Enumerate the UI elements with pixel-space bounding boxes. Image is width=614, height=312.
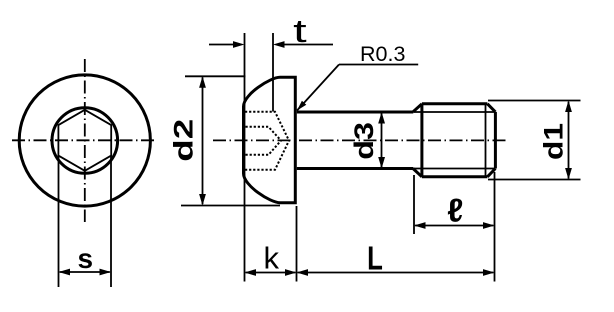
R0.3 leader arrow	[297, 65, 418, 111]
dimension d1 line with arrows	[565, 101, 572, 180]
dimension d2 line with arrows	[199, 76, 206, 205]
thread chamfer diagonal top-right	[487, 104, 495, 112]
L right extension line	[494, 172, 496, 282]
d1 extension line bottom	[488, 179, 581, 181]
d3 dimension line with arrows	[378, 112, 385, 169]
thread runout diagonal bottom-left	[413, 169, 422, 177]
thread full-dia start vertical	[420, 104, 423, 177]
dimension k line with arrows	[245, 269, 297, 276]
socket counterbore inner circle	[52, 108, 118, 174]
dimension t right arrow	[273, 41, 333, 48]
hex socket hexagon	[58, 110, 111, 171]
thread crest bottom line	[422, 175, 488, 178]
thread chamfer diagonal bottom-right	[487, 169, 495, 177]
l (ell) left extension line	[413, 175, 415, 234]
socket outer bottom hidden line	[245, 141, 289, 170]
head outer circle (d2) front view	[19, 75, 150, 206]
t extension line left (shared with k)	[244, 33, 246, 282]
vertical centerline front view	[84, 59, 86, 222]
svg-text:d3: d3	[349, 122, 379, 160]
dimension t left arrow	[209, 41, 245, 48]
d2 extension line top	[185, 75, 245, 77]
svg-text:d1: d1	[538, 123, 568, 160]
dimension L line with arrows	[297, 269, 495, 276]
thread root bottom thin line	[413, 168, 495, 170]
dimension s line with arrows	[59, 269, 112, 276]
horizontal centerline front view	[12, 139, 155, 141]
hex socket hidden lines (dotted)	[245, 112, 289, 170]
thread outline	[413, 104, 495, 177]
d1 extension line top	[488, 100, 581, 102]
thread runout diagonal top-left	[413, 104, 422, 112]
thread end face vertical	[494, 112, 497, 169]
s extension line right	[110, 156, 112, 288]
svg-text:R0.3: R0.3	[360, 42, 405, 66]
label t	[293, 13, 307, 49]
svg-text:s: s	[78, 243, 94, 274]
thread root top thin line	[413, 111, 495, 113]
socket inner top hidden line	[246, 127, 282, 141]
svg-text:ℓ: ℓ	[447, 191, 463, 228]
t extension line right (socket depth)	[272, 33, 274, 112]
button head outline side view	[244, 77, 296, 202]
head right face extension line (k/L)	[296, 206, 298, 282]
svg-text:k: k	[264, 241, 280, 276]
dimension l line with arrows	[414, 222, 495, 229]
svg-text:t: t	[293, 13, 307, 49]
thread chamfer base vertical thin line	[485, 104, 487, 177]
s extension line left	[58, 156, 60, 288]
socket outer top hidden line	[245, 112, 289, 141]
svg-text:d2: d2	[168, 119, 198, 162]
socket inner bottom hidden line	[246, 141, 282, 155]
label L	[367, 241, 383, 278]
d2 extension line bottom	[181, 205, 280, 207]
svg-text:L: L	[367, 241, 383, 278]
bolt centerline side view	[213, 139, 509, 141]
shank bottom line	[297, 167, 414, 170]
shank top line	[297, 111, 414, 114]
thread crest top line	[422, 102, 488, 105]
